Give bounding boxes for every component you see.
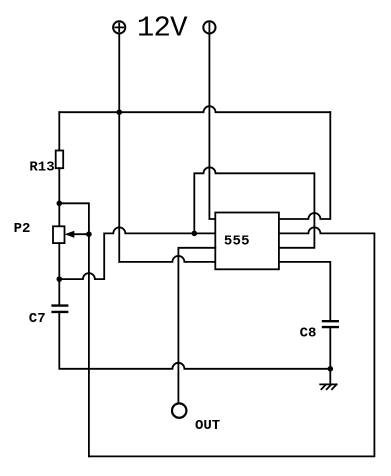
svg-text:C7: C7 — [29, 311, 46, 327]
wire 555 right pin row4 to C8 top — [279, 262, 330, 321]
wire trigger net: 555 left pin row2 going left, hop over +rail, jog down, hop over wiper column — [59, 227, 215, 279]
wire R13 bottom lead to P2 top — [58, 168, 60, 226]
terminal +12V (positive supply pad) — [113, 21, 125, 33]
wire tap from node to wiper column — [59, 203, 89, 234]
wire 555 left pin row4 (VCC) from rail to 555, hop over OUT line — [119, 256, 215, 262]
wire 555 left pin row3 (output) to OUT column — [178, 248, 215, 404]
wire C7 bottom lead down and across to C8/ground, hop over OUT line — [59, 312, 330, 369]
svg-text:R13: R13 — [29, 160, 54, 176]
wire ground stub — [329, 369, 331, 385]
wire C8 bottom lead to ground node — [329, 327, 331, 369]
svg-text:OUT: OUT — [195, 418, 220, 434]
node junction dot at +rail / top rail — [116, 109, 122, 115]
terminal OUT circle — [172, 403, 186, 417]
wire bottom rail to right outer rail up to 555 right pin row2, hop over x=314 — [89, 227, 375, 456]
wire R13 top lead from top rail — [58, 112, 60, 150]
ground symbol — [320, 384, 336, 389]
terminal - (negative supply pad) — [203, 21, 215, 33]
wire top rail y=112 from R13 column to right column, hop over minus wire — [59, 106, 330, 112]
node junction dot C8/ground/bottom net — [328, 366, 334, 372]
potentiometer P2 body — [53, 226, 65, 243]
svg-text:P2: P2 — [14, 221, 31, 237]
wire 555 right pin row1 to top right column up to top rail, hop over x=314 — [279, 112, 330, 219]
wire P2 bottom lead — [58, 243, 60, 306]
node junction dot P2 bottom / C7 — [57, 276, 63, 282]
node junction dot R13/P2/wiper tap — [57, 201, 63, 207]
node junction dot trigger/threshold link column — [192, 231, 198, 237]
node junction dot on wiper line — [86, 231, 92, 237]
svg-text:12V: 12V — [137, 12, 188, 45]
wire minus terminal down to 555 left pin row1 — [209, 34, 215, 219]
resistor R13 — [56, 151, 64, 169]
IC 555 body — [215, 213, 279, 270]
potentiometer P2 wiper arrow — [65, 231, 89, 238]
svg-text:C8: C8 — [300, 325, 317, 341]
svg-text:555: 555 — [224, 234, 250, 250]
capacitor C8 — [323, 321, 338, 327]
wire wiper column down to bottom rail — [88, 234, 90, 456]
wire threshold link: vertical x=194 up, across y=173 with hop over minus wire, down x=314 to 555 right pin row3 — [194, 167, 314, 247]
wire +12V vertical rail (x=119) from + terminal down to VCC pin row — [118, 34, 120, 262]
capacitor C7 — [53, 306, 68, 312]
